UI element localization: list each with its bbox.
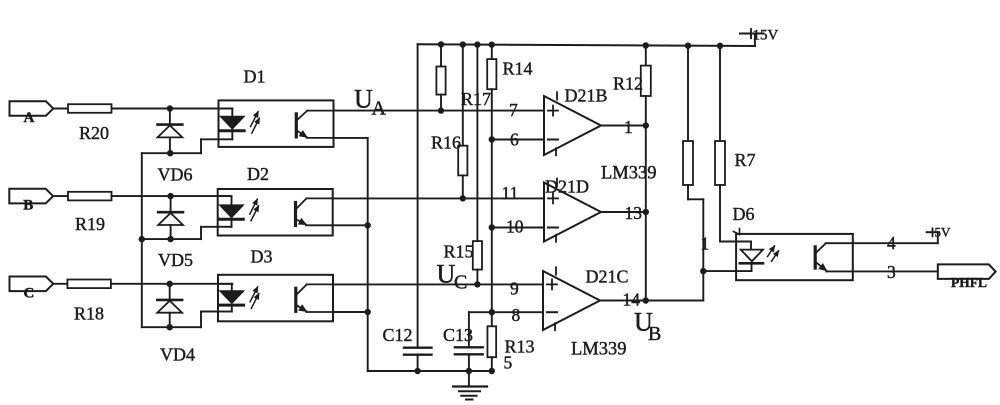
svg-text:C: C [24,285,35,301]
svg-text:3: 3 [887,262,896,282]
svg-text:8: 8 [512,305,521,325]
svg-text:R19: R19 [75,214,105,234]
svg-text:D21B: D21B [565,86,608,106]
svg-text:R20: R20 [79,123,109,143]
svg-text:A: A [372,98,387,120]
svg-text:B: B [648,323,661,345]
svg-text:6: 6 [510,130,519,150]
svg-text:14: 14 [623,290,641,310]
svg-text:U: U [354,85,373,114]
svg-text:U: U [437,260,456,289]
svg-text:R17: R17 [461,89,491,109]
svg-text:11: 11 [502,183,519,203]
svg-text:VD5: VD5 [158,250,193,270]
svg-text:D1: D1 [244,67,266,87]
svg-text:LM339: LM339 [601,164,657,184]
svg-text:LM339: LM339 [571,340,627,360]
svg-text:1: 1 [624,117,633,137]
svg-text:D2: D2 [247,164,269,184]
svg-text:D3: D3 [251,247,273,267]
svg-text:5: 5 [504,353,513,373]
svg-text:9: 9 [510,279,519,299]
svg-text:4: 4 [887,233,896,253]
svg-text:VD4: VD4 [160,345,195,365]
svg-text:10: 10 [506,217,524,237]
svg-text:5V: 5V [935,225,952,240]
svg-text:1: 1 [701,234,710,254]
svg-text:7: 7 [509,100,518,120]
svg-text:R15: R15 [444,242,474,262]
svg-text:15V: 15V [753,28,779,44]
svg-text:R14: R14 [503,59,533,79]
svg-text:D21D: D21D [545,177,589,197]
svg-text:VD6: VD6 [158,165,193,185]
svg-text:B: B [23,198,33,214]
svg-text:R18: R18 [74,304,104,324]
svg-text:C12: C12 [383,325,413,345]
svg-text:R7: R7 [735,150,756,170]
svg-text:C13: C13 [443,325,473,345]
svg-text:PHFL: PHFL [951,275,987,290]
svg-text:D21C: D21C [586,267,629,287]
svg-text:C: C [454,272,467,294]
svg-text:R16: R16 [431,133,461,153]
svg-text:13: 13 [625,203,643,223]
svg-text:A: A [24,110,35,126]
svg-text:D6: D6 [733,204,755,224]
svg-text:R12: R12 [613,74,643,94]
